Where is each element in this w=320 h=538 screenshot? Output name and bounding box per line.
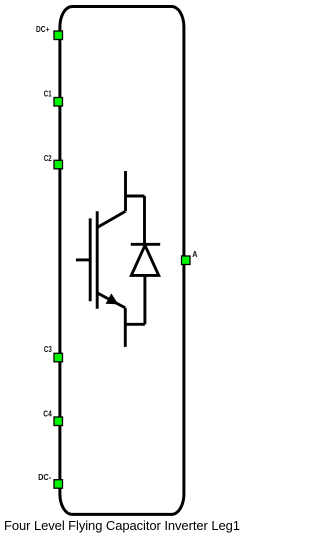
svg-text:C1: C1 bbox=[44, 90, 52, 99]
port DC- bbox=[54, 480, 63, 489]
port C1 bbox=[54, 98, 63, 107]
wire top branch to diode bbox=[126, 195, 145, 198]
diode anode lead bbox=[143, 275, 146, 324]
igbt collector diagonal bbox=[97, 211, 125, 227]
port A bbox=[182, 256, 191, 265]
svg-text:C4: C4 bbox=[43, 409, 52, 418]
igbt emitter stub bbox=[124, 308, 127, 347]
igbt body bar bbox=[96, 211, 99, 308]
svg-text:DC+: DC+ bbox=[36, 25, 50, 34]
igbt collector stub bbox=[124, 171, 127, 211]
port DC+ bbox=[54, 31, 63, 40]
port C4 bbox=[54, 417, 63, 426]
diode cathode bar bbox=[131, 243, 160, 246]
port C2 bbox=[54, 160, 63, 169]
igbt emitter diagonal bbox=[97, 293, 125, 308]
wire bottom branch from diode bbox=[125, 323, 145, 326]
svg-text:A: A bbox=[192, 250, 197, 259]
port C3 bbox=[54, 353, 63, 362]
diode D1 triangle bbox=[131, 245, 158, 275]
igbt gate bar bbox=[89, 218, 92, 301]
subsystem block outline bbox=[60, 7, 184, 515]
svg-text:C3: C3 bbox=[44, 345, 52, 354]
igbt emitter arrowhead bbox=[106, 293, 119, 304]
svg-text:C2: C2 bbox=[44, 154, 52, 163]
svg-text:DC-: DC- bbox=[38, 473, 51, 482]
diode cathode lead bbox=[143, 196, 146, 244]
svg-text:Four Level Flying Capacitor In: Four Level Flying Capacitor Inverter Leg… bbox=[4, 518, 240, 533]
igbt gate lead bbox=[76, 258, 90, 261]
